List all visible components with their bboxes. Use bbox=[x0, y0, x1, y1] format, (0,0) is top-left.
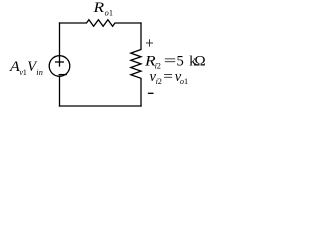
svg-text:2: 2 bbox=[158, 77, 162, 86]
svg-text:R: R bbox=[92, 0, 104, 16]
svg-text:1: 1 bbox=[184, 77, 188, 86]
svg-text:2: 2 bbox=[157, 61, 161, 70]
svg-text:A: A bbox=[9, 59, 20, 75]
svg-text:Ω: Ω bbox=[194, 52, 205, 69]
svg-text:1: 1 bbox=[109, 8, 113, 17]
svg-text:=: = bbox=[163, 69, 173, 85]
svg-text:n: n bbox=[39, 68, 43, 77]
svg-text:5: 5 bbox=[177, 53, 184, 69]
svg-text:=: = bbox=[164, 53, 177, 69]
